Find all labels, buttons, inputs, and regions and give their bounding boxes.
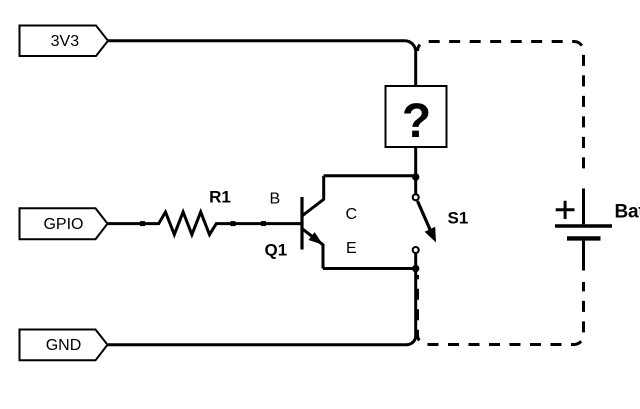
svg-text:C: C [346,206,358,223]
node A (top junction dot) [412,173,419,180]
svg-text:Q1: Q1 [265,240,288,259]
svg-text:3V3: 3V3 [51,33,80,50]
component box ? [386,86,447,147]
wire GPIO with resistor R1 zigzag [108,212,302,235]
svg-text:B: B [270,191,281,208]
battery enclosure dashed box [418,42,584,345]
transistor Q1 [302,176,324,269]
node B (bottom junction dot) [412,265,419,272]
junction nub [231,221,236,226]
wire emitter horizontal [323,267,416,270]
wire GND from bottom node [108,253,416,345]
battery BT1 [555,189,612,271]
wire collector horizontal [324,174,416,177]
switch S1 [413,194,436,253]
net tag GND [20,330,108,361]
net tag 3V3 [20,26,109,57]
junction nub [140,221,145,226]
svg-text:E: E [346,240,357,257]
wire 3V3 to node A [108,41,416,195]
svg-text:R1: R1 [209,188,231,207]
svg-text:GND: GND [46,337,82,354]
junction nub [261,221,266,226]
svg-text:S1: S1 [448,209,469,228]
svg-text:GPIO: GPIO [43,216,83,233]
battery dash eraser [575,175,592,282]
net tag GPIO [20,208,108,239]
svg-text:Battery: Battery [615,202,640,223]
svg-text:?: ? [402,95,431,148]
